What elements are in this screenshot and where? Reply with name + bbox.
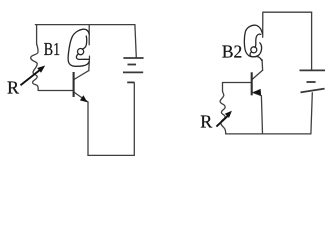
svg-text:R: R bbox=[7, 78, 19, 98]
svg-text:B1: B1 bbox=[44, 39, 60, 59]
svg-text:B2: B2 bbox=[222, 41, 242, 61]
svg-text:R: R bbox=[200, 112, 212, 132]
